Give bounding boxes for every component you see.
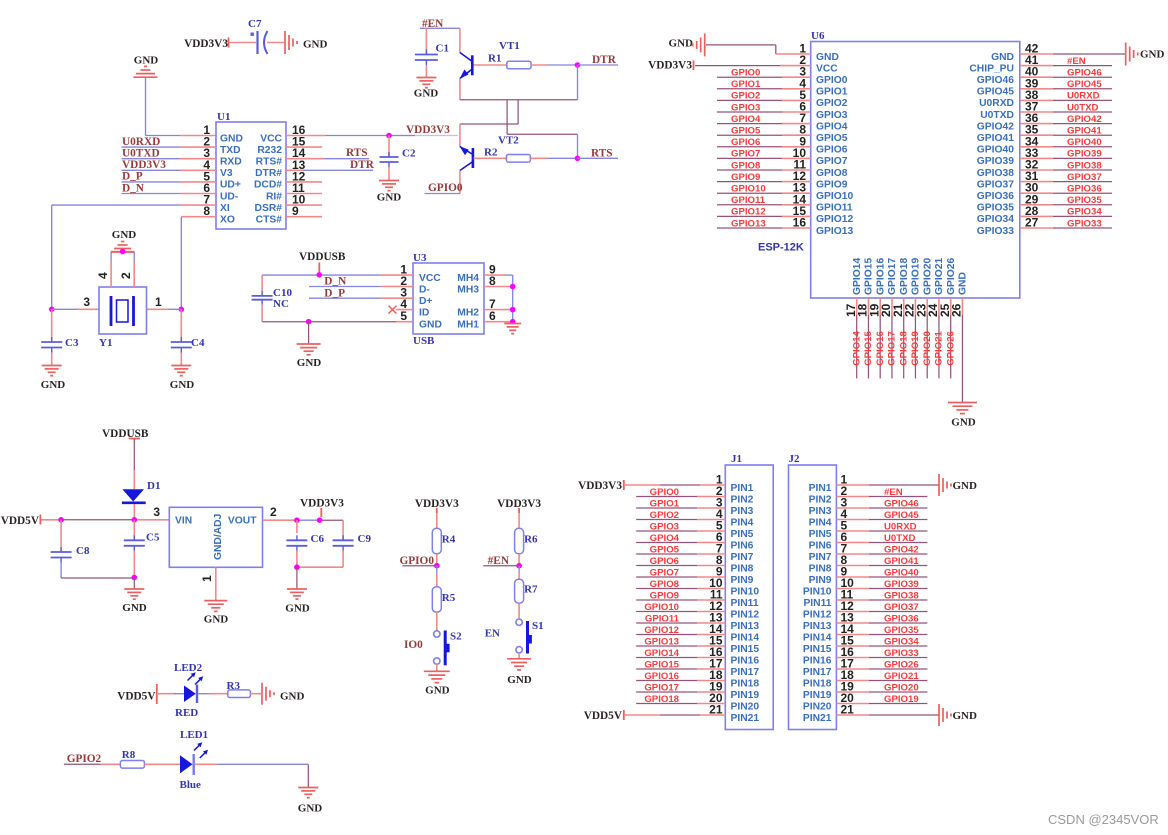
node GPIO45 at J2: [884, 510, 919, 521]
svg-text:LED2: LED2: [174, 662, 203, 674]
svg-text:GPIO2: GPIO2: [650, 510, 679, 521]
resistor R1: [488, 53, 531, 69]
svg-text:GPIO41: GPIO41: [1067, 126, 1102, 137]
svg-text:RTS#: RTS#: [256, 157, 283, 168]
switch S1: [516, 619, 544, 654]
wire U6 pin19: [879, 298, 881, 378]
svg-text:GPIO17: GPIO17: [887, 331, 898, 366]
resistor R5: [432, 587, 455, 612]
svg-text:PIN10: PIN10: [803, 586, 832, 597]
wire U6 pin16: [717, 227, 811, 229]
node GPIO18 at J1: [644, 694, 679, 705]
svg-text:PIN3: PIN3: [809, 506, 832, 517]
svg-text:GND: GND: [377, 192, 402, 204]
svg-text:GPIO0: GPIO0: [428, 182, 463, 194]
svg-text:RED: RED: [175, 707, 198, 719]
ground above crystal: [111, 229, 137, 252]
node GPIO45 at U6 right: [1067, 79, 1102, 90]
svg-text:GPIO20: GPIO20: [884, 682, 919, 693]
wire U1 pin9 stub: [286, 216, 322, 218]
wire R5 to S2: [436, 612, 438, 631]
svg-text:VDDUSB: VDDUSB: [299, 251, 346, 263]
svg-text:U3: U3: [413, 252, 427, 264]
wire J2 pin17: [836, 668, 927, 670]
svg-text:C9: C9: [358, 533, 372, 545]
power VDD3V3 at J1: [578, 480, 624, 492]
node GPIO15 at J1: [644, 659, 679, 670]
svg-text:GPIO34: GPIO34: [977, 214, 1014, 225]
led LED2: [174, 662, 203, 719]
junction at C2: [386, 133, 392, 139]
svg-text:D_P: D_P: [324, 287, 345, 299]
wire J1 pin6: [636, 542, 725, 544]
svg-text:3: 3: [153, 505, 160, 519]
svg-text:GPIO40: GPIO40: [977, 145, 1014, 156]
resistor R8: [120, 749, 144, 768]
svg-text:GND: GND: [958, 272, 969, 295]
wire R4 to GPIO0: [436, 554, 438, 566]
svg-text:PIN18: PIN18: [731, 678, 760, 689]
wire J2 pin20: [836, 703, 927, 705]
wire crystal pin4: [110, 252, 112, 287]
svg-text:VOUT: VOUT: [228, 516, 257, 527]
node GPIO0 at J1: [650, 487, 679, 498]
node GPIO16 at U6 bottom: [875, 331, 886, 366]
svg-text:PIN16: PIN16: [803, 655, 832, 666]
node GPIO13 at U6 left: [731, 218, 766, 229]
label ESP-12K: [758, 242, 804, 254]
node GPIO39 at J2: [884, 579, 919, 590]
svg-text:GND: GND: [280, 691, 305, 703]
wire GPIO0 to R5: [436, 566, 438, 587]
wire J1 pin16: [636, 657, 725, 659]
wire crystal pin3: [52, 308, 99, 310]
svg-text:U0TXD: U0TXD: [1067, 102, 1099, 113]
wire U1 pin15 stub: [286, 146, 322, 148]
wire U1 XI: [52, 205, 216, 309]
svg-text:26: 26: [950, 303, 964, 317]
svg-text:GND: GND: [1140, 49, 1165, 61]
wire J2 pin13: [836, 622, 927, 624]
svg-text:PIN5: PIN5: [809, 529, 832, 540]
svg-text:GND: GND: [298, 803, 323, 815]
wire J1 pin5: [636, 530, 725, 532]
svg-text:GPIO37: GPIO37: [977, 179, 1014, 190]
svg-text:ID: ID: [419, 307, 429, 318]
svg-text:GPIO11: GPIO11: [645, 613, 680, 624]
node #EN at J2: [884, 487, 903, 498]
svg-text:VIN: VIN: [175, 516, 192, 527]
node GPIO42 at U6 right: [1067, 114, 1102, 125]
svg-text:D1: D1: [147, 480, 160, 492]
node GPIO33 at J2: [884, 648, 919, 659]
svg-text:GPIO17: GPIO17: [887, 258, 898, 295]
ground below C3: [41, 366, 66, 392]
J2 pin names and numbers: [803, 473, 854, 724]
wire VT2 collector: [459, 171, 461, 194]
wire DTR drop: [577, 65, 579, 100]
svg-text:GPIO7: GPIO7: [816, 156, 848, 167]
node GPIO34 at U6 right: [1067, 207, 1102, 218]
node GPIO37 at U6 right: [1067, 172, 1102, 183]
ground at J2 pin1: [939, 474, 977, 496]
power VDD3V3 at regulator: [300, 498, 344, 518]
wire VDD5V to LED2: [158, 693, 176, 695]
node GPIO26 at U6 bottom: [945, 331, 956, 366]
junction VDDUSB: [317, 272, 323, 278]
svg-text:MH2: MH2: [457, 307, 479, 318]
resistor R4: [432, 528, 455, 554]
node GPIO40 at J2: [884, 567, 919, 578]
node GPIO14 at J1: [644, 648, 679, 659]
svg-text:GND: GND: [425, 685, 450, 697]
svg-text:GND: GND: [134, 54, 159, 66]
svg-text:GPIO1: GPIO1: [731, 79, 761, 90]
svg-text:PIN19: PIN19: [803, 690, 832, 701]
svg-text:GND: GND: [220, 133, 243, 144]
U3 pin names and numbers: [400, 263, 496, 331]
node GPIO18 at U6 bottom: [898, 330, 909, 365]
wire to C3: [51, 309, 53, 342]
svg-text:GPIO35: GPIO35: [1067, 195, 1102, 206]
svg-text:PIN6: PIN6: [809, 540, 832, 551]
svg-text:R5: R5: [442, 592, 456, 604]
svg-text:PIN11: PIN11: [803, 598, 831, 609]
svg-text:U0RXD: U0RXD: [1067, 91, 1100, 102]
svg-text:GPIO1: GPIO1: [650, 498, 680, 509]
wire C9 bottom: [297, 566, 343, 568]
junction U3 gnd: [306, 319, 312, 325]
capacitor C10: [252, 275, 293, 322]
wire J1 pin18: [636, 680, 725, 682]
svg-text:GPIO21: GPIO21: [934, 258, 945, 295]
wire U6 pin37: [1020, 111, 1112, 113]
power VDD5V at LED2: [117, 684, 157, 704]
svg-text:PIN12: PIN12: [731, 609, 760, 620]
node GPIO13 at J1: [644, 636, 679, 647]
node GPIO16 at J1: [644, 671, 679, 682]
svg-text:LED1: LED1: [180, 729, 208, 741]
svg-text:NC: NC: [273, 298, 289, 310]
svg-text:VDD3V3: VDD3V3: [122, 159, 166, 171]
node GPIO4 at J1: [650, 533, 680, 544]
svg-text:GPIO17: GPIO17: [644, 682, 679, 693]
node U0TXD at J2: [884, 533, 916, 544]
ground below C1: [414, 78, 439, 100]
wire U6 pin7: [717, 123, 811, 125]
resistor R7: [515, 579, 538, 603]
wire U6 pin3: [717, 76, 811, 78]
svg-text:U0RXD: U0RXD: [122, 136, 160, 148]
svg-text:GPIO15: GPIO15: [644, 659, 679, 670]
wire J1 pin19: [636, 691, 725, 693]
svg-text:PIN4: PIN4: [809, 517, 832, 528]
node GPIO46 at U6 right: [1067, 68, 1102, 79]
wire U6 pin23: [926, 298, 928, 378]
svg-text:GPIO6: GPIO6: [650, 556, 679, 567]
node GPIO17 at J1: [644, 682, 679, 693]
crystal Y1: [99, 287, 147, 349]
wire J2 pin15: [836, 645, 927, 647]
svg-text:GPIO14: GPIO14: [644, 648, 679, 659]
junction D1 out: [132, 517, 138, 523]
node U0RXD at J2: [884, 521, 917, 532]
svg-text:VT2: VT2: [498, 135, 519, 147]
svg-text:GPIO16: GPIO16: [644, 671, 679, 682]
svg-text:4: 4: [96, 272, 110, 279]
U6 bottom pin names and numbers: [844, 258, 969, 317]
svg-text:PIN21: PIN21: [731, 713, 760, 724]
svg-text:ESP-12K: ESP-12K: [758, 242, 804, 254]
svg-text:GPIO19: GPIO19: [910, 331, 921, 366]
svg-text:CTS#: CTS#: [256, 215, 283, 226]
svg-text:GPIO3: GPIO3: [816, 110, 848, 121]
node GPIO14 at U6 bottom: [851, 330, 862, 365]
wire J2 pin19: [836, 691, 927, 693]
svg-text:GND: GND: [414, 88, 439, 100]
capacitor C9: [333, 520, 372, 567]
svg-text:D+: D+: [419, 296, 432, 307]
svg-text:CHIP_PU: CHIP_PU: [969, 63, 1014, 74]
svg-text:D-: D-: [419, 284, 430, 295]
node GPIO41 at U6 right: [1067, 126, 1102, 137]
wire net D_N to U1: [122, 193, 216, 195]
wire U6 pin26 GND: [961, 298, 963, 402]
node GPIO7 at U6 left: [731, 149, 760, 160]
svg-text:C1: C1: [436, 43, 449, 55]
svg-text:GPIO42: GPIO42: [884, 544, 919, 555]
svg-text:S2: S2: [450, 631, 462, 643]
svg-text:C6: C6: [311, 533, 325, 545]
svg-text:GPIO6: GPIO6: [731, 137, 760, 148]
wire U6 pin15: [717, 215, 811, 217]
svg-text:VCC: VCC: [816, 63, 838, 74]
svg-text:GPIO15: GPIO15: [863, 330, 874, 365]
wire regulator pin1: [215, 567, 217, 600]
capacitor C1: [415, 43, 449, 66]
svg-text:GPIO6: GPIO6: [816, 145, 848, 156]
switch S2: [434, 631, 463, 666]
node GPIO34 at J2: [884, 636, 919, 647]
svg-text:GPIO45: GPIO45: [977, 87, 1014, 98]
junction MH1: [510, 319, 516, 325]
svg-text:GPIO12: GPIO12: [816, 214, 853, 225]
node GPIO2 at J1: [650, 510, 679, 521]
svg-text:GPIO4: GPIO4: [816, 121, 848, 132]
svg-text:PIN13: PIN13: [731, 621, 760, 632]
wire C1 to GND: [425, 65, 427, 77]
U6 side pin names and numbers: [793, 42, 1039, 237]
wire U3 MH1: [484, 321, 513, 323]
svg-text:GPIO12: GPIO12: [644, 625, 679, 636]
wire J2 pin6: [836, 542, 927, 544]
wire U1 RTS#: [286, 158, 344, 160]
node GPIO2 at U6 left: [731, 91, 760, 102]
capacitor C5: [124, 520, 160, 578]
junction XO node: [179, 307, 185, 313]
wire U6 pin35: [1020, 134, 1112, 136]
node GPIO5 at J1: [650, 544, 680, 555]
wire J1 pin13: [636, 622, 725, 624]
node U0TXD: [122, 148, 160, 160]
wire C4 to GND: [180, 353, 182, 366]
svg-text:PIN7: PIN7: [809, 552, 832, 563]
node GPIO11 at U6 left: [731, 195, 766, 206]
wire J1 pin9: [636, 576, 725, 578]
svg-text:VCC: VCC: [260, 133, 282, 144]
svg-text:GPIO7: GPIO7: [731, 149, 760, 160]
svg-text:GPIO5: GPIO5: [816, 133, 848, 144]
svg-text:VDD3V3: VDD3V3: [648, 60, 692, 72]
wire VDD3V3 to R6: [518, 513, 520, 528]
svg-text:C4: C4: [191, 337, 205, 349]
node GPIO41 at J2: [884, 556, 919, 567]
wire J2 pin16: [836, 657, 927, 659]
junction MH2: [510, 307, 516, 313]
capacitor C2: [380, 148, 416, 168]
svg-text:GPIO35: GPIO35: [884, 625, 919, 636]
svg-text:MH4: MH4: [457, 273, 479, 284]
svg-text:GPIO36: GPIO36: [884, 613, 919, 624]
node GPIO36 at U6 right: [1067, 184, 1102, 195]
svg-text:GPIO9: GPIO9: [731, 172, 760, 183]
node GPIO15 at U6 bottom: [863, 330, 874, 365]
ground below U3: [297, 344, 322, 369]
node GPIO38 at U6 right: [1067, 160, 1102, 171]
ground below LED1: [298, 788, 323, 815]
svg-text:GPIO33: GPIO33: [884, 648, 919, 659]
wire J2 pin11: [836, 599, 927, 601]
node U0TXD at U6 right: [1067, 102, 1099, 113]
svg-text:R8: R8: [122, 749, 136, 761]
wire U6 pin13: [717, 192, 811, 194]
svg-text:GPIO40: GPIO40: [1067, 137, 1102, 148]
J1 pin names and numbers: [709, 473, 759, 724]
svg-text:GPIO4: GPIO4: [731, 114, 761, 125]
svg-text:MH1: MH1: [457, 320, 479, 331]
wire J2 pin21: [836, 714, 939, 716]
wire VDD3V3 to R4: [436, 513, 438, 528]
power VDD3V3 at R4: [415, 498, 459, 513]
svg-text:U0RXD: U0RXD: [979, 98, 1014, 109]
power VDD3V3 at U6: [648, 60, 693, 72]
svg-text:GPIO33: GPIO33: [977, 226, 1014, 237]
wire U3 GND: [262, 321, 413, 323]
wire crossover a: [460, 100, 578, 135]
capacitor C4: [171, 337, 205, 353]
svg-text:CSDN @2345VOR: CSDN @2345VOR: [1048, 812, 1159, 827]
wire VDD5V rail: [41, 519, 169, 521]
wire U3 gnd drop: [308, 322, 310, 344]
crystal pin labels: [83, 295, 162, 309]
wire U6 pin2 VDD3V3: [695, 65, 811, 67]
node GPIO12 at J1: [644, 625, 679, 636]
wire C8 bottom: [61, 577, 134, 579]
wire U6 pin22: [914, 298, 916, 378]
node GPIO19 at J2: [884, 694, 919, 705]
wire J2 pin8: [836, 565, 927, 567]
node GPIO36 at J2: [884, 613, 919, 624]
wire U6 pin25: [950, 298, 952, 378]
wire U6 pin36: [1020, 123, 1112, 125]
power VDD5V at J1: [584, 710, 624, 722]
svg-text:#EN: #EN: [884, 487, 903, 498]
wire U6 pin28: [1020, 215, 1112, 217]
wire U6 pin38: [1020, 99, 1112, 101]
wire S2 to GND: [436, 664, 438, 671]
junction C6: [294, 517, 300, 523]
svg-text:XI: XI: [220, 203, 230, 214]
svg-text:GPIO39: GPIO39: [1067, 149, 1102, 160]
node GPIO39 at U6 right: [1067, 149, 1102, 160]
ground below C4: [170, 366, 195, 392]
power VDDUSB at U3: [299, 251, 346, 272]
svg-text:GPIO9: GPIO9: [816, 179, 848, 190]
svg-text:1: 1: [200, 575, 214, 582]
svg-text:DTR: DTR: [350, 159, 375, 171]
wire J1 pin1: [625, 484, 725, 486]
svg-text:GPIO13: GPIO13: [731, 218, 766, 229]
svg-text:GND/ADJ: GND/ADJ: [213, 513, 224, 560]
node GPIO8 at U6 left: [731, 160, 761, 171]
node GPIO8 at J1: [650, 579, 680, 590]
junction XI node: [49, 307, 55, 313]
ground below regulator: [204, 601, 229, 626]
wire U3 ID stub: [396, 309, 413, 311]
svg-text:GND: GND: [297, 357, 322, 369]
svg-text:GPIO46: GPIO46: [884, 498, 919, 509]
svg-text:R7: R7: [524, 584, 538, 596]
wire net VDD3V3 to U1: [122, 169, 216, 171]
wire #EN to VT1 collector: [459, 28, 461, 53]
node GPIO2: [64, 753, 102, 765]
wire U6 pin20: [891, 298, 893, 378]
node GPIO12 at U6 left: [731, 207, 766, 218]
svg-text:PIN15: PIN15: [731, 644, 760, 655]
svg-text:EN: EN: [485, 628, 500, 640]
svg-text:2: 2: [270, 505, 277, 519]
svg-text:GPIO2: GPIO2: [731, 91, 760, 102]
svg-text:GPIO18: GPIO18: [644, 694, 679, 705]
capacitor C6: [286, 520, 324, 567]
svg-text:GPIO34: GPIO34: [884, 636, 919, 647]
resistor R6: [515, 528, 538, 554]
svg-text:#EN: #EN: [1067, 56, 1086, 67]
svg-text:GPIO20: GPIO20: [922, 258, 933, 295]
svg-text:C2: C2: [402, 148, 416, 160]
svg-text:PIN12: PIN12: [803, 609, 832, 620]
node GPIO4 at U6 left: [731, 114, 761, 125]
power label VDD3V3: [184, 38, 228, 51]
svg-text:GPIO38: GPIO38: [1067, 160, 1102, 171]
svg-text:GPIO46: GPIO46: [977, 75, 1014, 86]
wire U6 pin17: [856, 298, 858, 378]
wire J1 pin21: [625, 714, 725, 716]
svg-text:GPIO1: GPIO1: [816, 87, 848, 98]
svg-text:PIN18: PIN18: [803, 678, 832, 689]
wire J1 pin17: [636, 668, 725, 670]
wire C5 to GND: [133, 578, 135, 589]
wire LED2 to R3: [198, 693, 228, 695]
wire U3 MH3: [484, 286, 513, 288]
svg-text:1: 1: [155, 295, 162, 309]
svg-text:GPIO0: GPIO0: [650, 487, 679, 498]
wire U6 pin4: [717, 88, 811, 90]
svg-text:UD-: UD-: [220, 191, 239, 202]
U1 pin names and numbers: [203, 123, 305, 226]
wire J2 pin5: [836, 530, 927, 532]
wire crystal pin2: [133, 252, 135, 287]
